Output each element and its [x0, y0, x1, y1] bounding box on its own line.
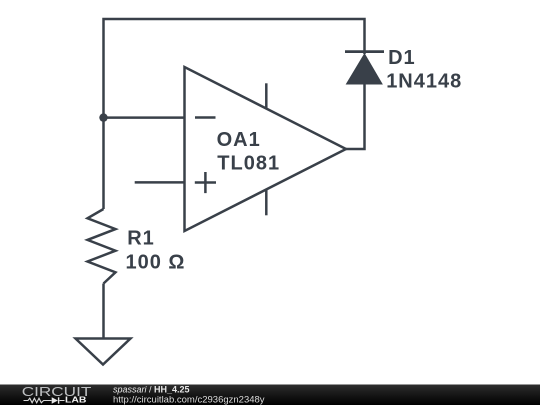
svg-text:100 Ω: 100 Ω: [126, 252, 186, 274]
svg-text:LAB: LAB: [65, 396, 87, 405]
ground symbol: [76, 339, 131, 365]
svg-text:TL081: TL081: [217, 153, 280, 175]
svg-text:R1: R1: [127, 228, 155, 250]
resistor R1 zigzag: [88, 209, 116, 284]
node A junction dot: [99, 113, 107, 121]
wire: R1 bottom to ground: [102, 284, 105, 339]
footer bar: [0, 385, 540, 405]
wire: top feedback net (R1 top up, across, down to D1 cathode): [104, 19, 365, 209]
wire: inverting input from node A to op-amp: [104, 116, 185, 119]
op-amp OA1 minus sign: [195, 116, 216, 119]
svg-text:spassari / HH_4.25: spassari / HH_4.25: [113, 385, 190, 395]
op-amp OA1 triangle body: [185, 67, 347, 231]
wire: op-amp output to diode D1 anode: [346, 84, 365, 149]
diode D1 triangle: [347, 54, 383, 84]
svg-text:1N4148: 1N4148: [386, 71, 462, 93]
svg-text:OA1: OA1: [217, 129, 261, 151]
svg-text:http://circuitlab.com/c2936gzn: http://circuitlab.com/c2936gzn2348y: [113, 394, 265, 405]
op-amp OA1 plus sign: [195, 172, 216, 193]
CircuitLab logo resistor-diode symbol: [24, 398, 65, 403]
wire: non-inverting input stub: [135, 181, 185, 184]
op-amp OA1 positive supply pin: [265, 83, 268, 108]
svg-text:D1: D1: [388, 47, 416, 69]
op-amp OA1 negative supply pin: [265, 190, 268, 215]
diode D1 cathode bar: [345, 50, 384, 53]
